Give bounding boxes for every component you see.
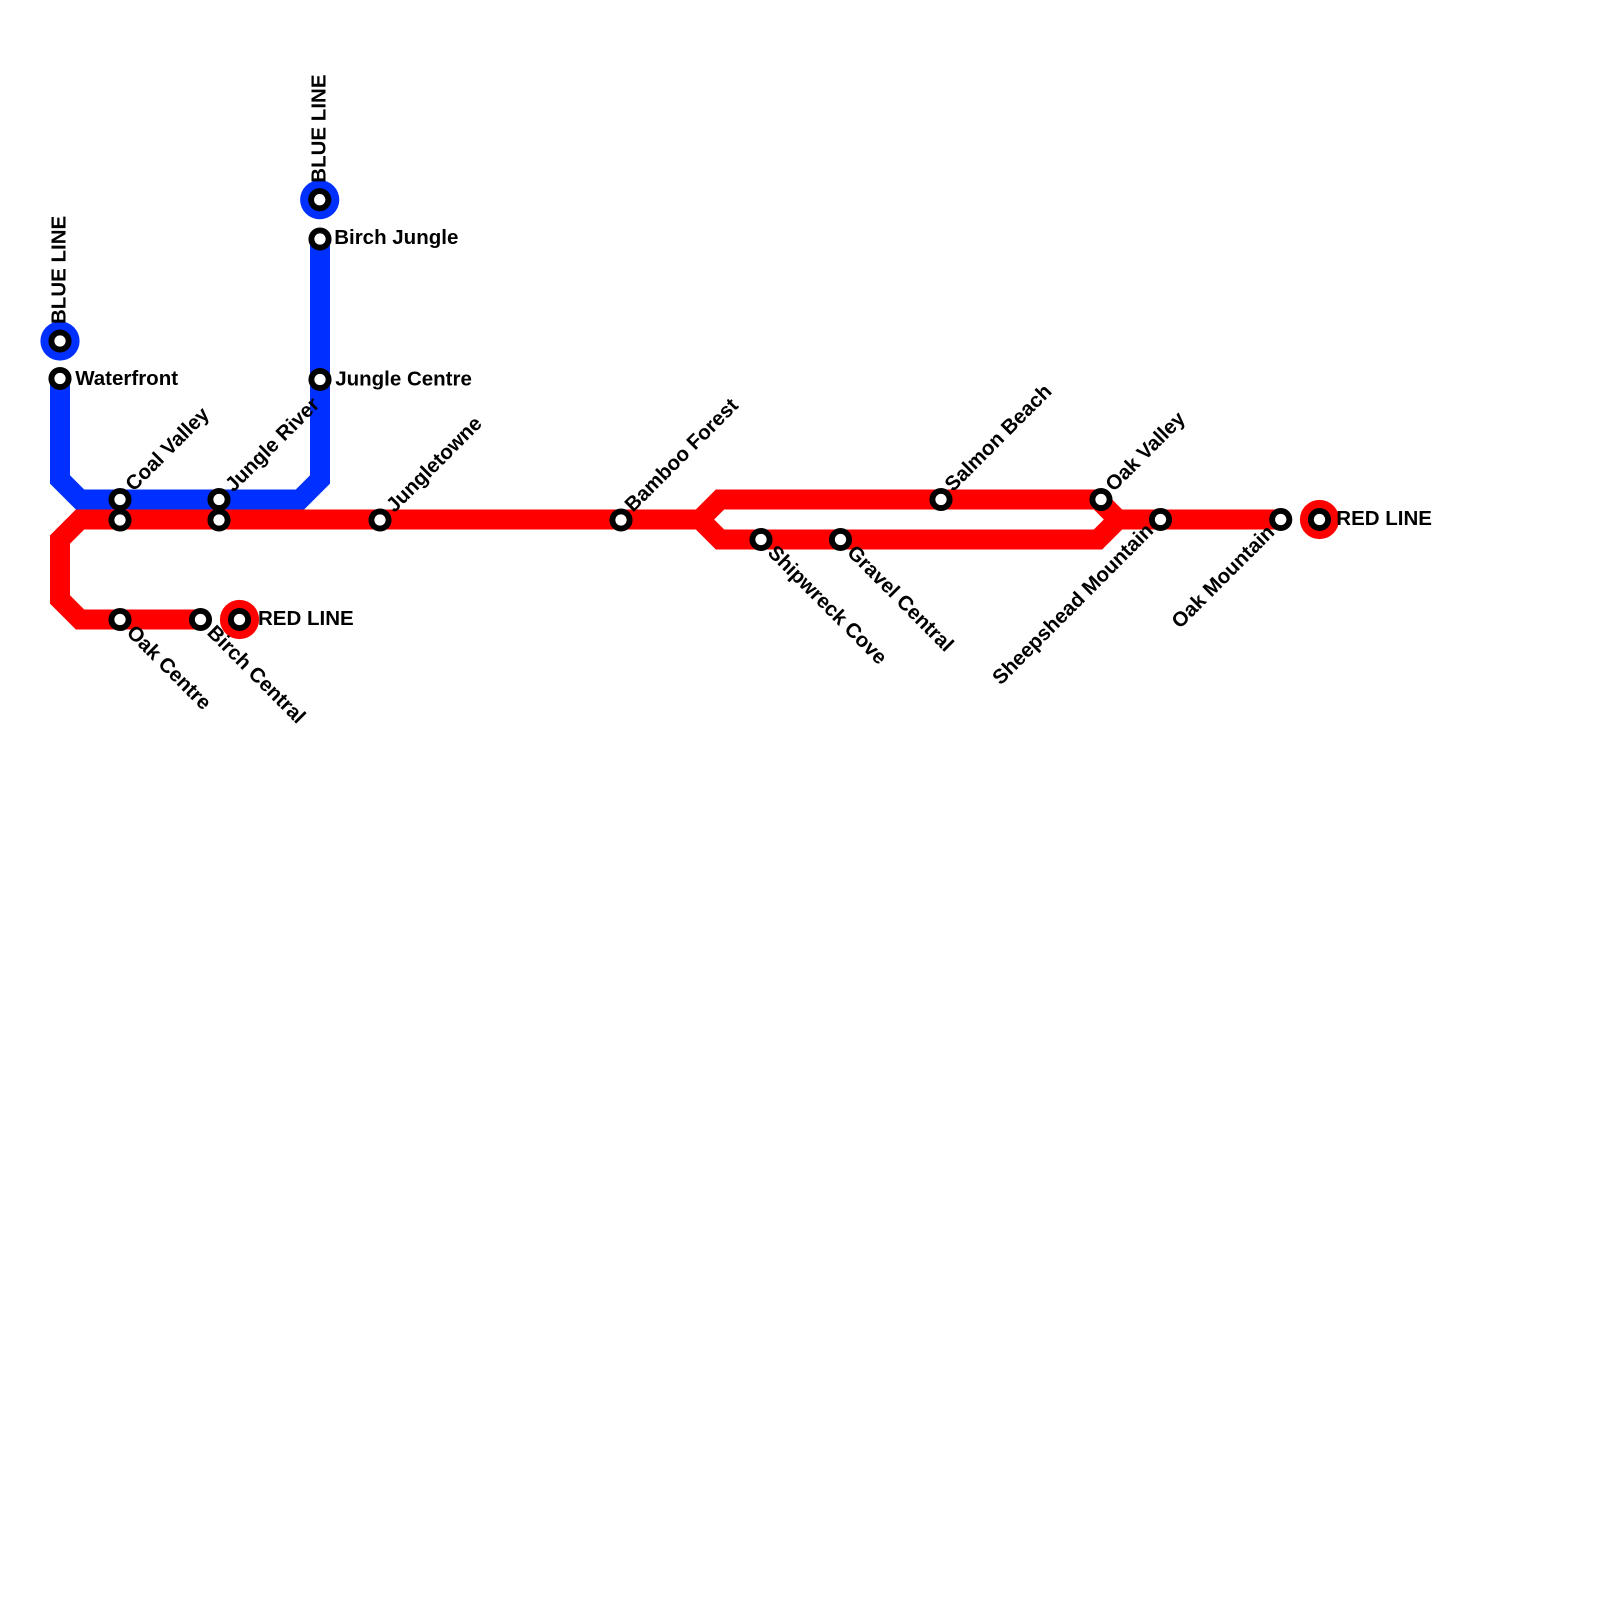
svg-text:Birch Jungle: Birch Jungle bbox=[334, 226, 458, 249]
svg-text:BLUE LINE: BLUE LINE bbox=[48, 216, 71, 324]
svg-text:RED LINE: RED LINE bbox=[1336, 507, 1432, 530]
svg-text:Waterfront: Waterfront bbox=[75, 367, 178, 390]
svg-text:Jungle Centre: Jungle Centre bbox=[335, 367, 472, 390]
svg-text:RED LINE: RED LINE bbox=[258, 607, 354, 630]
svg-text:BLUE LINE: BLUE LINE bbox=[307, 74, 330, 182]
